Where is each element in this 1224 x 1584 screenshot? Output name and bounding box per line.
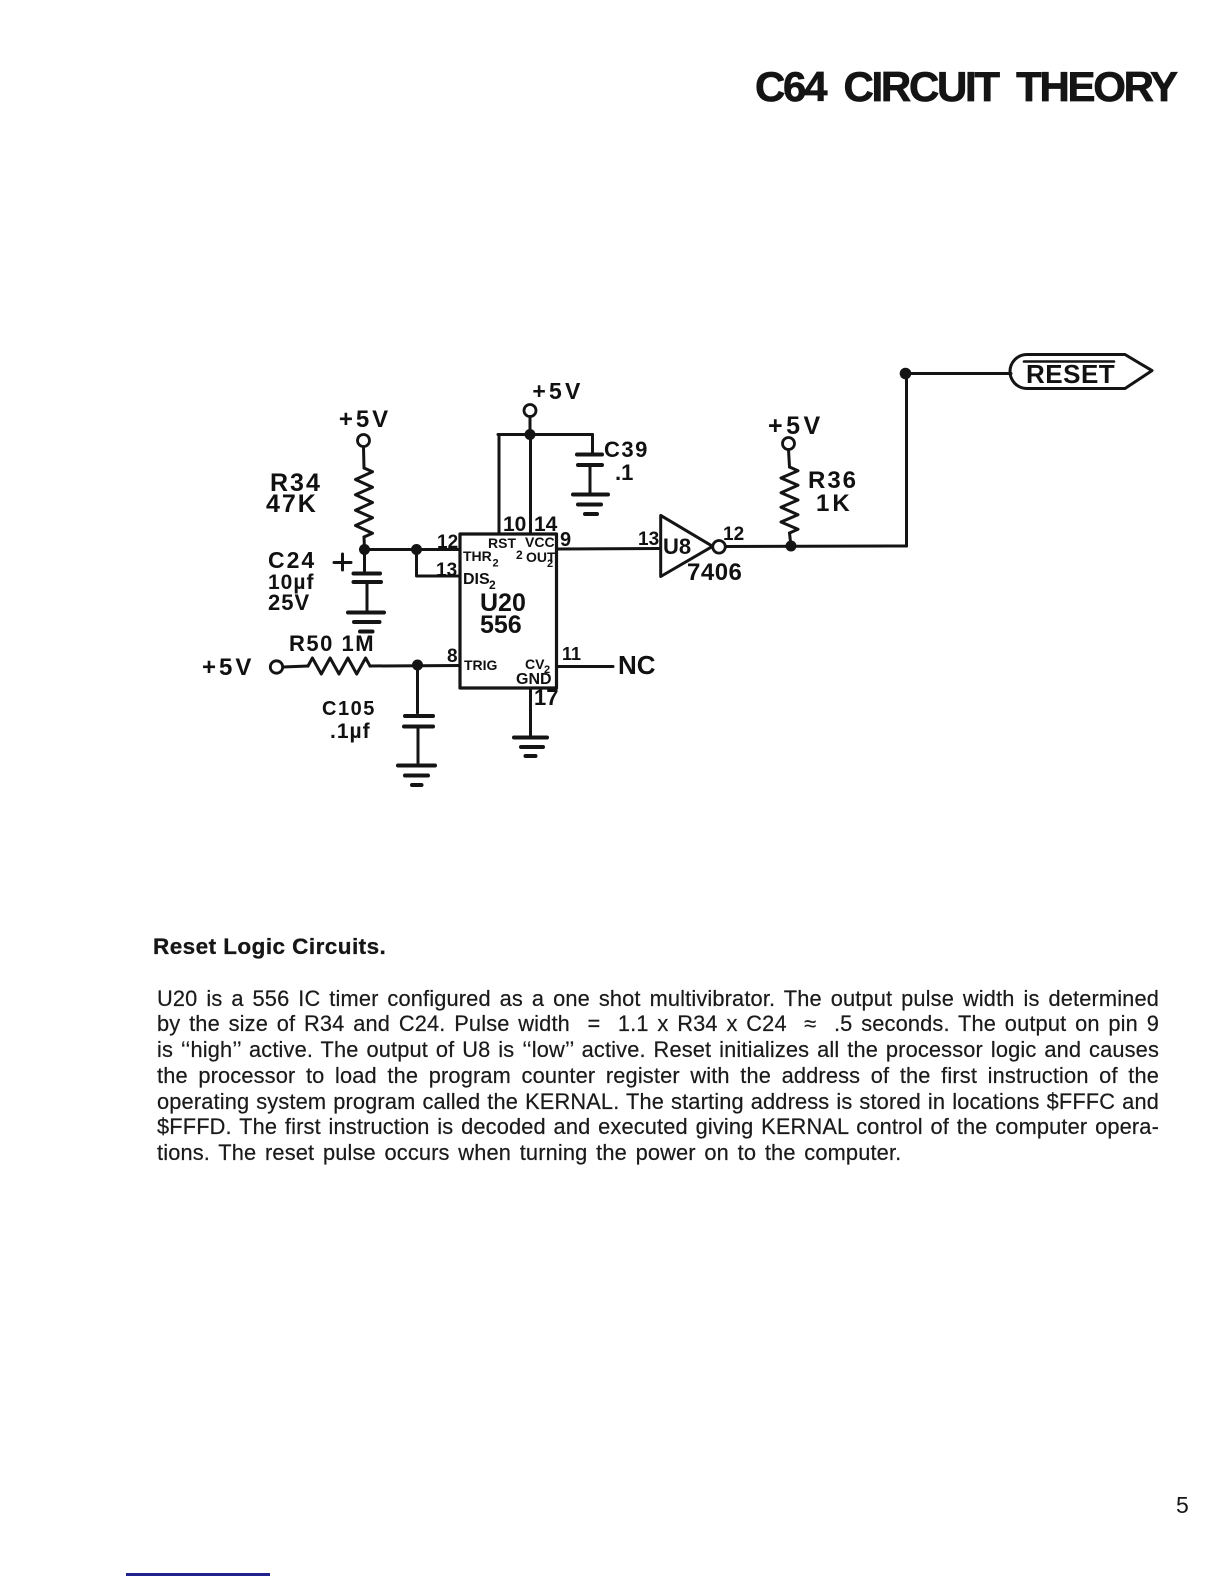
svg-text:12: 12 — [437, 532, 458, 553]
section heading — [153, 934, 386, 960]
svg-text:2: 2 — [493, 558, 499, 570]
svg-text:THR: THR — [463, 548, 492, 564]
svg-text:+5V: +5V — [202, 654, 254, 681]
bottom blue mark — [126, 1573, 270, 1576]
ground (U20 pin 17) — [514, 738, 547, 757]
wire U20 pin 11 (CV2) to NC — [557, 665, 614, 668]
svg-text:NC: NC — [618, 650, 656, 680]
svg-text:U8: U8 — [663, 534, 691, 559]
wire U20 pin 17 (GND) — [529, 688, 532, 735]
net label RESET (flag) — [1010, 355, 1152, 390]
wire to RESET flag — [906, 372, 1012, 375]
svg-text:8: 8 — [447, 646, 458, 667]
svg-text:+5V: +5V — [339, 406, 391, 433]
svg-text:R50 1M: R50 1M — [289, 631, 375, 656]
value label C105 .1uf — [322, 698, 376, 743]
port label RST2 — [488, 535, 523, 562]
page title — [755, 63, 1176, 111]
port label CV2 — [525, 656, 550, 676]
svg-text:2: 2 — [516, 548, 523, 562]
svg-text:13: 13 — [638, 529, 659, 550]
power +5V terminal (R36 supply) — [768, 412, 824, 467]
capacitor C39 — [577, 435, 602, 493]
inverter U8 7406 — [661, 515, 726, 576]
svg-text:RST: RST — [488, 535, 516, 551]
node: DIS2 branch junction — [411, 544, 422, 555]
svg-text:1K: 1K — [816, 490, 853, 517]
svg-text:17: 17 — [534, 685, 558, 710]
svg-text:C39: C39 — [604, 437, 649, 462]
capacitor C24 — [334, 550, 381, 611]
svg-text:DIS: DIS — [463, 571, 490, 588]
svg-text:12: 12 — [723, 524, 744, 545]
value label R36 1K — [808, 467, 858, 517]
svg-text:2: 2 — [547, 558, 553, 570]
value label R34 47K — [266, 469, 322, 518]
svg-text:13: 13 — [436, 560, 457, 581]
node: R36 / output junction — [786, 541, 797, 552]
ground (C105) — [398, 766, 435, 786]
node: TRIG / C105 junction — [412, 660, 423, 671]
wire U20 pin 9 (OUT2) to U8 input — [557, 547, 661, 551]
capacitor C105 — [404, 665, 433, 763]
wire R50 to U20 pin 8 (TRIG) — [370, 664, 460, 668]
svg-text:47K: 47K — [266, 490, 318, 518]
svg-text:VCC: VCC — [525, 534, 555, 550]
ground (C39) — [573, 495, 608, 515]
svg-text:10: 10 — [503, 513, 526, 536]
wire VCC rail to pins 10 and 14 — [498, 435, 593, 535]
power +5V terminal (R34 supply) — [339, 406, 391, 468]
svg-text:+5V: +5V — [768, 412, 824, 440]
svg-text:.1µf: .1µf — [330, 720, 371, 743]
wire to U20 pin 13 (DIS2) — [417, 550, 461, 577]
IC U20 556 timer box — [460, 534, 557, 688]
wire U8 output to RESET riser — [726, 545, 907, 549]
svg-text:7406: 7406 — [687, 559, 742, 586]
svg-text:11: 11 — [562, 644, 581, 664]
port label THR2 — [463, 548, 499, 570]
svg-text:.1: .1 — [615, 460, 633, 485]
resistor R36 — [781, 467, 798, 546]
svg-text:C105: C105 — [322, 698, 376, 720]
power +5V terminal (U20 VCC) — [524, 378, 584, 435]
value label C39 .1 — [604, 437, 649, 485]
node: RESET net junction — [900, 368, 912, 380]
resistor R34 — [356, 468, 373, 550]
value label C24 10uf 25V — [268, 547, 316, 615]
resistor R50 — [283, 658, 370, 674]
node: VCC junction dot — [525, 429, 536, 440]
body paragraph (justified lines) — [157, 986, 1159, 1012]
wire node to U20 pin 12 (THR2) — [365, 548, 461, 551]
node: R34 / C24 / THR2 junction — [359, 544, 370, 555]
port label DIS2 — [463, 571, 496, 592]
svg-text:CV: CV — [525, 656, 545, 672]
svg-text:RESET: RESET — [1026, 359, 1115, 389]
page number — [1176, 1492, 1189, 1519]
ground (C24) — [348, 613, 384, 632]
wire riser up to RESET net — [905, 374, 908, 547]
svg-text:C24: C24 — [268, 547, 316, 573]
svg-text:TRIG: TRIG — [464, 657, 498, 673]
svg-text:14: 14 — [534, 513, 558, 536]
svg-text:+5V: +5V — [532, 378, 583, 404]
port label OUT2 — [526, 549, 556, 570]
power +5V terminal (R50 / TRIG input) — [202, 654, 283, 681]
svg-text:25V: 25V — [268, 590, 310, 615]
svg-text:556: 556 — [480, 611, 522, 639]
